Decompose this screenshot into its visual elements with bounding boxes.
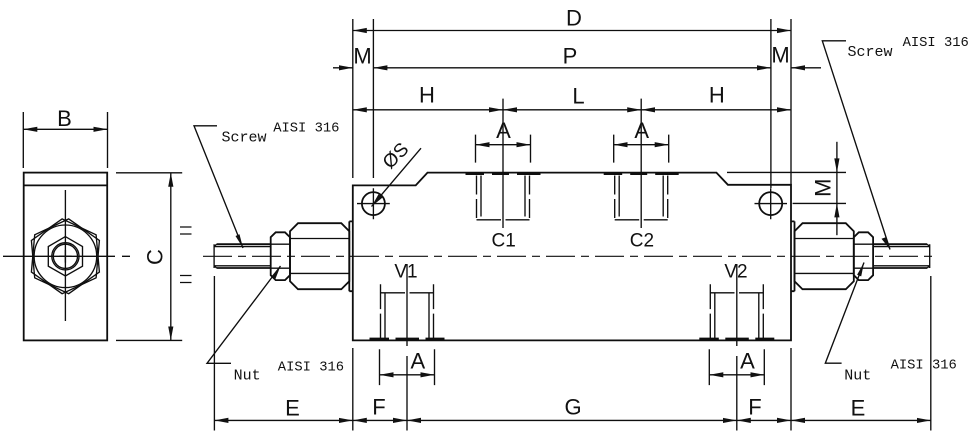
dimension A under V1	[380, 349, 435, 385]
note nut left	[207, 266, 281, 363]
svg-text:E: E	[851, 396, 866, 421]
fitting chamfer circle	[34, 225, 97, 288]
screw thread inner circle	[53, 244, 77, 268]
end view horizontal centerline	[3, 255, 130, 257]
svg-text:A: A	[634, 118, 649, 143]
dimension H right	[641, 109, 791, 111]
port C1 axis	[502, 99, 504, 228]
svg-text:A: A	[496, 118, 511, 143]
screw thread outer circle	[52, 243, 79, 270]
dimension D	[353, 30, 791, 32]
center cross	[59, 250, 71, 263]
svg-text:AISI 316: AISI 316	[273, 121, 339, 136]
dimension C line	[170, 173, 172, 341]
port V2 countersink band	[699, 338, 774, 341]
dimension P	[373, 67, 771, 69]
svg-text:G: G	[564, 395, 581, 420]
svg-text:F: F	[748, 395, 761, 420]
svg-text:M: M	[811, 179, 836, 197]
D extension lines	[353, 19, 791, 185]
note nut right	[825, 263, 864, 364]
bottom chain extension lines	[214, 276, 930, 431]
dimension A under V2	[709, 349, 764, 385]
svg-text:H: H	[709, 83, 725, 108]
svg-text:M: M	[353, 44, 371, 69]
nut hexagon	[48, 237, 82, 276]
left flange	[349, 221, 353, 291]
dimension B extension lines	[23, 112, 107, 168]
dimension E right	[791, 419, 931, 421]
svg-text:F: F	[372, 395, 385, 420]
horizontal centerline	[203, 255, 938, 257]
svg-text:E: E	[285, 396, 300, 421]
svg-text:P: P	[563, 44, 578, 69]
svg-text:V1: V1	[394, 261, 417, 282]
svg-text:ØS: ØS	[379, 139, 413, 173]
screw hole right	[759, 192, 782, 215]
note screw right	[822, 41, 890, 250]
equality marks	[180, 227, 192, 283]
port V1 thread lines	[381, 284, 434, 338]
svg-text:Screw: Screw	[222, 130, 267, 147]
port V2 axis	[736, 264, 738, 431]
left threaded rod	[217, 244, 271, 268]
dimension L	[503, 109, 641, 111]
svg-text:AISI 316: AISI 316	[278, 361, 344, 376]
body outline	[353, 173, 791, 341]
dimension M vertical (right)	[727, 172, 846, 203]
svg-text:AISI 316: AISI 316	[891, 359, 957, 374]
svg-text:Screw: Screw	[848, 44, 893, 61]
port V1 countersink band	[370, 338, 445, 341]
port V2 thread lines	[710, 284, 763, 338]
right threaded rod	[873, 244, 927, 268]
leader oS	[372, 148, 422, 206]
dimension B line	[23, 128, 107, 130]
svg-text:A: A	[740, 349, 755, 374]
svg-text:H: H	[419, 83, 435, 108]
screw hole left	[362, 192, 385, 215]
port C1 thread lines	[477, 176, 530, 219]
svg-text:B: B	[57, 106, 72, 131]
port C2 thread lines	[615, 176, 668, 219]
svg-text:AISI 316: AISI 316	[903, 36, 969, 51]
right flange	[791, 221, 795, 291]
dimension F right	[737, 419, 791, 421]
end view vertical centerline	[64, 190, 66, 321]
dimension F left	[353, 419, 407, 421]
svg-text:V2: V2	[724, 261, 747, 282]
port V1 axis	[406, 264, 408, 431]
dimension G	[407, 419, 737, 421]
left nut	[271, 232, 290, 280]
dimension A over C1	[476, 135, 531, 163]
svg-text:L: L	[572, 84, 584, 109]
right nut	[854, 232, 873, 280]
dimension E left	[214, 419, 352, 421]
svg-text:C2: C2	[630, 231, 654, 252]
end view top step line	[24, 184, 108, 186]
svg-text:A: A	[411, 349, 426, 374]
svg-text:D: D	[566, 5, 582, 30]
P extension lines	[373, 19, 771, 188]
svg-text:Nut: Nut	[844, 368, 871, 385]
port C2 axis	[640, 99, 642, 228]
M outside arrows	[333, 67, 353, 69]
dimension A over C2	[614, 135, 669, 163]
svg-text:M: M	[771, 43, 789, 68]
dimension H left	[353, 109, 503, 111]
port C1 countersink band	[466, 172, 541, 175]
port C2 countersink band	[604, 172, 679, 175]
right big hex fitting	[795, 223, 854, 289]
fitting outer hexagon 1	[31, 219, 99, 294]
svg-text:C1: C1	[492, 231, 516, 252]
left big hex fitting	[290, 223, 349, 289]
fitting outer hexagon 2	[31, 219, 99, 294]
dimension C extension lines	[116, 173, 182, 341]
note screw left	[194, 126, 243, 248]
end view body outline	[24, 173, 108, 341]
svg-text:C: C	[143, 249, 168, 265]
svg-text:Nut: Nut	[234, 368, 261, 385]
